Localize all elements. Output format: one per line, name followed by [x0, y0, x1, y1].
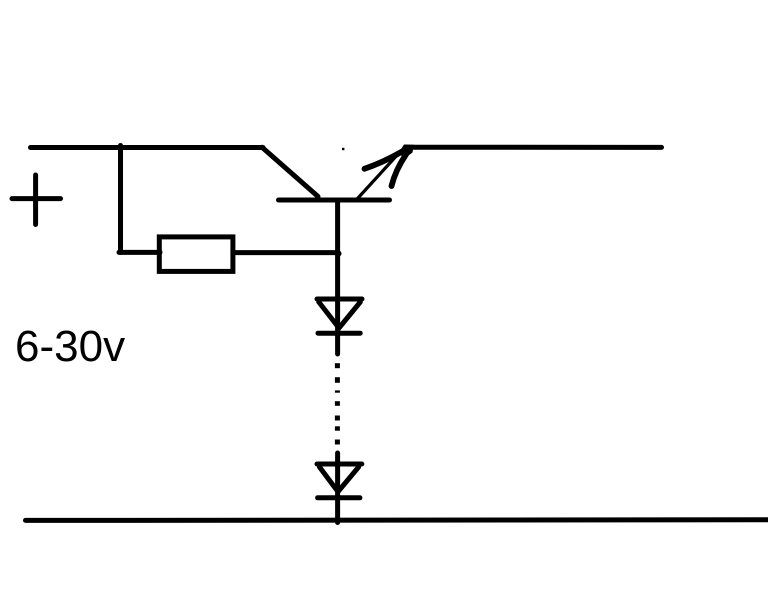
Q1 emitter diagonal lead	[358, 152, 401, 199]
wire base vertical down through diode D1	[335, 202, 340, 354]
wire top-left supply rail	[31, 145, 264, 150]
diode Dn	[317, 464, 362, 498]
label 6-30v supply voltage	[15, 322, 125, 372]
dotted wire continuation of diode string	[335, 363, 340, 444]
resistor R1	[159, 237, 233, 272]
Q1 arrow tip blob	[399, 145, 415, 159]
ground rail bottom wire	[26, 517, 768, 523]
Q1 emitter arrowhead short barb	[392, 155, 407, 187]
stray ink speck	[342, 148, 344, 150]
+ polarity symbol	[12, 175, 61, 225]
wire vertical drop from top rail to resistor lead	[118, 146, 123, 253]
Q1 base bar	[279, 198, 390, 203]
diode D1	[317, 299, 362, 333]
wire solid segment above diode Dn	[335, 453, 340, 466]
wire resistor left lead	[119, 250, 160, 255]
junction dot at base node	[336, 251, 342, 257]
wire resistor right lead to base node	[233, 250, 338, 255]
wire top-right output rail	[406, 145, 662, 150]
wire diode Dn cathode down through first diode to ground rail	[335, 466, 340, 523]
transistor Q1	[262, 145, 414, 201]
Q1 collector diagonal lead	[262, 147, 318, 196]
Q1 emitter arrowhead long barb	[365, 151, 404, 169]
